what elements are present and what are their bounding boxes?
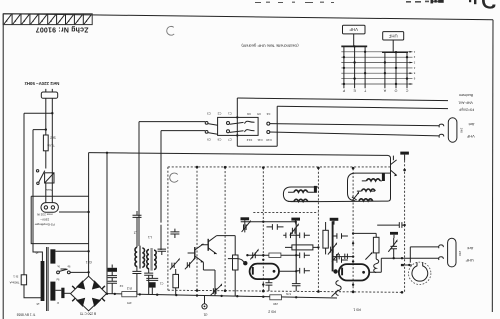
- svg-text:VHF: VHF: [466, 134, 474, 139]
- svg-text:F9=2mpF: F9=2mpF: [458, 108, 474, 112]
- svg-text:max 232 W: max 232 W: [37, 213, 53, 217]
- svg-text:C6: C6: [247, 112, 251, 116]
- svg-text:Si 2: Si 2: [50, 136, 56, 140]
- svg-text:C8: C8: [217, 138, 221, 142]
- svg-text:C10: C10: [266, 138, 272, 142]
- svg-text:Zchg Nr: 91007: Zchg Nr: 91007: [36, 25, 89, 32]
- svg-text:UHF: UHF: [465, 258, 474, 263]
- svg-text:Si 1: Si 1: [13, 274, 19, 278]
- svg-text:470: 470: [127, 301, 132, 305]
- svg-text:C9: C9: [207, 138, 211, 142]
- svg-text:UHF: UHF: [388, 33, 397, 38]
- svg-text:C5: C5: [257, 112, 261, 116]
- svg-text:C1: C1: [228, 112, 232, 116]
- svg-text:C1: C1: [159, 281, 163, 285]
- svg-text:230V~: 230V~: [40, 218, 49, 222]
- svg-text:Rö 1: Rö 1: [353, 307, 361, 311]
- svg-text:Buchsen: Buchsen: [459, 93, 473, 97]
- svg-text:1f: 1f: [57, 301, 59, 304]
- svg-text:L2: L2: [134, 230, 138, 234]
- svg-text:Ant: Ant: [466, 246, 473, 251]
- svg-text:6 W: 6 W: [286, 292, 291, 296]
- svg-text:L1: L1: [148, 235, 152, 239]
- svg-text:C2: C2: [119, 284, 123, 288]
- svg-text:O: O: [394, 88, 397, 92]
- svg-text:T800mA: T800mA: [9, 281, 19, 285]
- svg-text:VHF-Ant.: VHF-Ant.: [458, 100, 473, 104]
- svg-text:C2: C2: [217, 112, 221, 116]
- svg-text:Taste: Taste: [45, 188, 52, 192]
- svg-text:C11: C11: [257, 138, 263, 142]
- svg-text:Gl 1: Gl 1: [86, 260, 92, 264]
- svg-text:C12: C12: [246, 138, 252, 142]
- svg-text:C: C: [405, 88, 408, 92]
- svg-text:(Gestrichelte Teile UHF gedreh: (Gestrichelte Teile UHF gedreht): [241, 43, 299, 48]
- svg-text:T1,6A: T1,6A: [47, 143, 55, 147]
- svg-text:Ant: Ant: [468, 122, 475, 127]
- svg-text:Netz 220V~ 50Hz: Netz 220V~ 50Hz: [24, 81, 60, 86]
- svg-text:C7: C7: [228, 138, 232, 142]
- svg-text:C4: C4: [266, 112, 270, 116]
- svg-text:Tr 1 BV 8663: Tr 1 BV 8663: [16, 312, 35, 316]
- svg-text:FS-Empfänger: FS-Empfänger: [35, 223, 55, 227]
- svg-text:VHF: VHF: [349, 27, 358, 32]
- svg-text:240: 240: [458, 251, 462, 256]
- svg-text:240: 240: [460, 128, 464, 133]
- svg-text:d1: d1: [204, 313, 208, 317]
- svg-text:B 250 C 75: B 250 C 75: [80, 312, 96, 316]
- svg-text:Rö 2: Rö 2: [268, 309, 276, 313]
- svg-text:R 2: R 2: [127, 286, 132, 290]
- svg-text:220: 220: [273, 302, 278, 306]
- svg-text:C3: C3: [207, 112, 211, 116]
